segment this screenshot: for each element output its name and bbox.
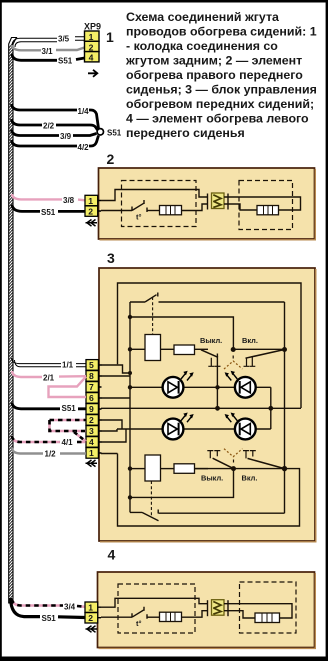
connector XP9 pins 1,2,4 [85,31,100,63]
svg-text:2/2: 2/2 [43,122,55,131]
svg-text:8: 8 [89,371,94,381]
svg-text:1: 1 [89,32,94,42]
wire 2/1 (pink) to pin 8 [12,371,86,383]
LED 1 (left, row 1) [163,371,194,398]
wire 1/1 (white) to pin 5 [12,358,87,370]
svg-text:1/1: 1/1 [62,361,74,370]
wire 3/9 [12,130,97,142]
unit 3 S51 bus across [101,407,301,409]
svg-text:XP9: XP9 [84,22,101,32]
unit 3 feeder wire to off/on contact (bottom) [130,469,234,498]
svg-text:Вкл.: Вкл. [242,336,258,345]
svg-text:3/1: 3/1 [42,47,54,56]
wire 4/2 [12,136,99,153]
title text [125,10,317,140]
unit 3 right LED column [268,387,273,429]
element 2 right wires [228,197,301,210]
svg-text:1: 1 [88,196,93,206]
unit 3 relay2-switch dashed link [150,481,152,516]
unit 3 right bus V1 [284,302,286,513]
LED 2 (right, row 1) [225,371,256,398]
unit 3 internal pin connections [101,365,132,454]
unit 3 relay 1 [128,335,174,361]
unit 3 relay contacts bottom row [195,449,288,483]
svg-text:6: 6 [89,393,94,403]
svg-text:Вкл.: Вкл. [242,474,258,483]
element 4 wire pin1 to connector (top) [101,598,208,607]
svg-text:жгутом задним; 2 — элемент: жгутом задним; 2 — элемент [125,54,302,68]
element 2 heating resistor left [147,204,208,215]
svg-text:переднего сиденья: переднего сиденья [126,126,245,140]
unit 3 top bus with switch [130,293,285,303]
svg-text:4: 4 [108,547,116,563]
svg-text:3/5: 3/5 [58,35,70,44]
element 4 right wires [228,604,292,618]
svg-text:1/2: 1/2 [45,450,57,459]
arrow to rear harness [88,70,97,77]
wire S51 to element 2 [12,205,85,218]
svg-text:S51: S51 [58,57,73,66]
element 4 left dashed enclosure [118,584,195,633]
unit 3 mid column [215,354,220,411]
control unit box 3 [99,268,315,541]
element 4 right dashed enclosure [240,582,297,633]
svg-text:1/4: 1/4 [78,107,90,116]
svg-text:3/8: 3/8 [63,196,75,205]
unit 3 switch-relay dashed link [152,297,154,334]
svg-text:2: 2 [88,207,93,217]
svg-text:5: 5 [89,360,94,370]
svg-text:2: 2 [88,613,93,623]
svg-text:t°: t° [136,619,142,628]
svg-text:Выкл.: Выкл. [201,474,223,483]
arrow symbol below element 4 pins [86,626,98,633]
unit 3 relay contacts top row [200,336,287,369]
element 4 thermal switch [101,607,147,629]
unit 3 resistor 2 [174,464,208,474]
svg-text:2/1: 2/1 [43,374,55,383]
svg-text:4/2: 4/2 [78,143,90,152]
svg-text:2: 2 [89,415,94,425]
heater element box 4 (left front seat) [98,572,315,648]
svg-text:9: 9 [89,404,94,414]
wire S51 to pin 9 [12,403,86,414]
svg-text:Выкл.: Выкл. [200,336,222,345]
unit 3 S51 ground loop rectangle [118,283,302,408]
unit 3 pin row [86,360,102,459]
svg-text:1: 1 [89,448,94,458]
element 2 right dashed enclosure [239,181,293,230]
element 2 left dashed enclosure [122,181,197,227]
striped jumper wires pins 2,3 [50,420,87,442]
unit 3 bottom switch [130,510,285,521]
arrow symbol below unit 3 pins [86,460,98,467]
wire S51 to XP9 pin 4 [12,54,85,66]
unit 3 LED row 1 wire [130,386,271,388]
wire 3/4 (striped) to element 4 [12,599,85,612]
unit 3 resistor 1 [174,345,208,355]
svg-text:S51: S51 [62,404,77,413]
pink jumper pin 8 to pin 6 [49,377,87,397]
unit 3 LED row 2 wire [117,428,271,430]
svg-text:S51: S51 [42,614,57,623]
element 4 pins 1,2 [85,602,101,623]
harness bundle bar [9,38,17,604]
heater element box 2 (right front seat) [99,168,315,239]
wire 3/8 (pink) [12,194,85,205]
wire 1/2 (grey) to pin 1 [12,448,86,459]
element 4 heating resistor left [147,611,208,622]
svg-text:3/4: 3/4 [64,603,76,612]
svg-text:2: 2 [89,42,94,52]
LED 4 (right, row 2) [225,413,256,440]
element 2 inline connector [208,193,229,210]
svg-text:t°: t° [136,213,142,222]
wire 3/5 (white) [12,35,85,48]
element 2 wire pin1 to connector (top) [101,190,208,201]
svg-text:7: 7 [89,382,94,392]
svg-text:обогрева правого переднего: обогрева правого переднего [126,68,303,82]
element 4 inline connector [208,600,229,617]
wire S51 to element 4 [11,598,86,623]
svg-text:сиденья; 3 — блок управления: сиденья; 3 — блок управления [126,83,317,97]
LED 3 (left, row 2) [163,413,194,440]
svg-text:3: 3 [89,426,94,436]
wire 3/1 (grey) [12,45,85,56]
svg-text:1: 1 [88,603,93,613]
svg-text:- колодка соединения со: - колодка соединения со [126,39,278,53]
unit 3 relay 2 [128,455,174,481]
element 2 heating resistor right [257,206,279,215]
svg-text:4 — элемент обогрева левого: 4 — элемент обогрева левого [126,112,309,126]
element 4 heating resistor right [255,613,280,623]
svg-text:3: 3 [107,250,115,266]
splice node S51 [97,129,122,138]
svg-text:обогревом передних сидений;: обогревом передних сидений; [126,97,314,111]
svg-text:2: 2 [107,151,115,167]
svg-text:4/1: 4/1 [62,438,74,447]
wire 2/2 [12,119,98,131]
svg-text:Схема соединений жгута: Схема соединений жгута [126,10,279,24]
element 2 pins 1,2 [85,195,101,216]
arrow symbol below element 2 pins [86,220,98,227]
wire 4/1 (striped) to pin 4 [12,436,86,447]
svg-text:S51: S51 [107,129,122,138]
svg-text:4: 4 [89,437,94,447]
svg-text:4: 4 [89,53,94,63]
svg-text:1: 1 [106,29,114,45]
unit 3 left bus [129,302,131,512]
svg-text:3/9: 3/9 [60,132,72,141]
svg-text:проводов обогрева сидений: 1: проводов обогрева сидений: 1 [126,25,317,39]
element 2 thermal switch [101,200,147,222]
svg-text:S51: S51 [41,208,56,217]
unit 3 feeder wire to off/on contact (top) [130,317,233,349]
wire 1/4 [12,104,99,129]
